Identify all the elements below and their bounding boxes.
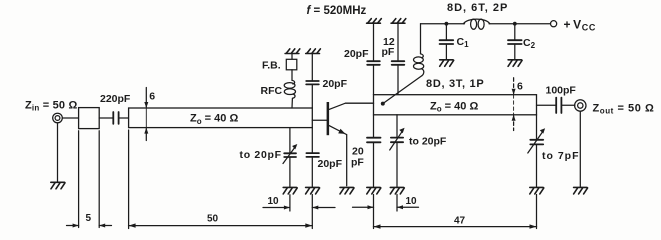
svg-text:220pF: 220pF (100, 93, 131, 105)
svg-text:C1: C1 (457, 36, 470, 49)
inductor RFC (261, 70, 296, 108)
svg-text:+VCC: +VCC (564, 17, 596, 32)
svg-text:20pF: 20pF (323, 78, 348, 90)
svg-text:20pF: 20pF (318, 158, 343, 170)
ground (output) (574, 187, 588, 194)
connector box (79, 108, 100, 129)
svg-text:f = 520MHz: f = 520MHz (307, 5, 367, 17)
dimension 5 (box width) (67, 131, 112, 228)
ground (C1) (440, 60, 454, 67)
capacitor 20pF (collector) (344, 23, 380, 95)
svg-text:100pF: 100pF (546, 85, 577, 97)
dimension 6 (strip2 height) (513, 78, 515, 131)
junction node C1 (445, 22, 449, 26)
input terminal (53, 113, 63, 123)
variable capacitor to 20pF (under strip1) (240, 128, 298, 188)
top ground (above 20pF base cap) (306, 49, 321, 54)
variable capacitor to 7pF (528, 115, 580, 187)
microstrip line 1 Zo=40 (129, 108, 313, 128)
svg-text:to 20pF: to 20pF (240, 149, 282, 161)
transistor Q1 (312, 102, 373, 186)
capacitor 100pF (537, 85, 577, 114)
extension wire 10 right (396, 195, 398, 212)
capacitor 20pF (under strip1 right) (306, 128, 342, 188)
extension wire 50/10 (311, 195, 313, 229)
tap node (dot) (381, 102, 385, 106)
dimension 10 (left) (263, 195, 335, 211)
capacitor 12pF (382, 23, 405, 95)
output terminal (575, 100, 586, 111)
capacitor C2 (508, 24, 536, 60)
svg-text:pF: pF (382, 46, 395, 58)
ground (20pF strip2) (367, 187, 381, 194)
wire output terminal to ground (579, 111, 581, 187)
svg-text:F.B.: F.B. (262, 59, 281, 71)
ferrite bead F.B. (286, 59, 297, 70)
capacitor C1 (440, 24, 469, 60)
dimension 10 (right) (353, 196, 419, 209)
dimension 47 (374, 215, 537, 228)
wire terminal to box (62, 117, 78, 119)
ground (emitter) (340, 187, 354, 194)
top ground (above F.B.) (285, 49, 300, 54)
svg-text:50: 50 (207, 213, 219, 224)
ground (trimmer strip2) (390, 187, 404, 194)
capacitor 220pF (99, 93, 131, 124)
terminal +Vcc (551, 21, 557, 27)
svg-text:8D, 6T, 2P: 8D, 6T, 2P (447, 2, 508, 14)
extension wire 47 right (536, 195, 538, 229)
junction node C2 (513, 22, 517, 26)
svg-text:47: 47 (454, 215, 466, 226)
capacitor 20pF (under strip2 left) (351, 115, 381, 187)
svg-text:10: 10 (268, 196, 280, 207)
microstrip line 2 Zo=40 (374, 95, 537, 115)
wire ground to F.B. (291, 54, 293, 60)
svg-text:RFC: RFC (261, 85, 283, 97)
svg-text:10: 10 (406, 196, 418, 207)
variable capacitor to 20pF (under strip2) (390, 115, 447, 187)
svg-text:20pF: 20pF (344, 48, 369, 60)
inductor 8D,6T,2P (447, 2, 508, 29)
svg-text:5: 5 (86, 213, 92, 224)
top ground (above 12pF) (391, 19, 406, 24)
svg-text:pF: pF (351, 157, 364, 169)
svg-text:6: 6 (517, 80, 523, 92)
ground (trimmer strip1) (283, 187, 297, 194)
dimension 50 (strip1 length) (129, 130, 313, 229)
svg-text:8D, 3T, 1P: 8D, 3T, 1P (426, 78, 484, 90)
svg-text:C2: C2 (523, 37, 536, 50)
ground (input) (51, 182, 65, 189)
top ground (above 20pF collector) (367, 19, 382, 24)
svg-text:6: 6 (149, 91, 155, 103)
svg-text:Zin = 50 Ω: Zin = 50 Ω (25, 100, 78, 113)
ground (20pF right) (306, 187, 320, 194)
ground (trimmer 7pF) (530, 187, 544, 194)
ground (C2) (508, 60, 522, 67)
wire collector to strip2 (346, 102, 374, 104)
inductor 8D,3T,1P (383, 24, 485, 104)
wire Vcc line (421, 23, 465, 25)
svg-text:to 7pF: to 7pF (542, 150, 580, 162)
wire terminal to ground (57, 123, 59, 182)
capacitor 20pF (base) (306, 54, 347, 109)
extension wire 47 left (373, 195, 375, 229)
dimension 6 (strip1 height) (144, 88, 155, 141)
svg-text:to 20pF: to 20pF (409, 136, 447, 148)
svg-text:Zout = 50 Ω: Zout = 50 Ω (593, 103, 655, 116)
